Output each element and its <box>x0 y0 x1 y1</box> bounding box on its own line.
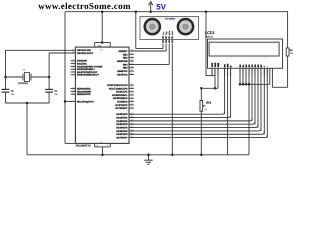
svg-text:PIC16F877A: PIC16F877A <box>76 144 91 147</box>
pin 6 RA4/T0CKI/C1OUT <box>71 71 76 73</box>
wire RD5 bus <box>129 129 261 131</box>
svg-text:RA3/AN3/VREF+: RA3/AN3/VREF+ <box>77 68 96 71</box>
wire OSC2 to crystal <box>49 52 75 54</box>
svg-text:RV1: RV1 <box>206 101 211 104</box>
svg-text:RD4/PSP4: RD4/PSP4 <box>116 126 128 129</box>
wire RS riser <box>224 68 226 114</box>
pin 12 VSS <box>94 143 96 147</box>
svg-text:HC-SR04: HC-SR04 <box>165 18 176 21</box>
svg-text:RB7/PGD: RB7/PGD <box>117 73 128 76</box>
sensor pin GND <box>172 40 174 44</box>
svg-text:RD1/PSP1: RD1/PSP1 <box>116 116 128 119</box>
svg-text:RC2/CCP1: RC2/CCP1 <box>116 91 128 94</box>
wire RD3 bus <box>129 122 255 124</box>
svg-text:5: 5 <box>73 67 74 70</box>
wire RD4 bus <box>129 125 258 127</box>
svg-text:12: 12 <box>96 144 98 147</box>
wire OSC1 to crystal <box>6 49 76 51</box>
svg-text:RC1/T1OSI/CCP2: RC1/T1OSI/CCP2 <box>109 87 128 90</box>
pin 35 RB2 <box>129 57 134 59</box>
svg-text:RD5/PSP5: RD5/PSP5 <box>116 130 128 133</box>
wire VDD riser <box>214 68 216 88</box>
wire VDD feed <box>101 12 103 43</box>
svg-text:10: 10 <box>72 92 74 95</box>
svg-text:1: 1 <box>73 99 74 102</box>
wire D3 ground drop <box>248 68 250 155</box>
wire 5V drop / MCLR tie (x=65) <box>64 12 66 144</box>
svg-text:Gnd: Gnd <box>171 31 174 35</box>
pin 17 RC2/CCP1 <box>129 91 134 93</box>
svg-text:RC6/TX/CK: RC6/TX/CK <box>115 104 127 107</box>
svg-text:RA0/AN0: RA0/AN0 <box>77 60 88 63</box>
svg-text:Vdd: Vdd <box>99 49 102 52</box>
wire VEE riser <box>217 68 219 88</box>
pin 27 RD4/PSP4 <box>129 127 134 129</box>
wire VSS bar <box>95 146 111 148</box>
svg-text:RD0/PSP0: RD0/PSP0 <box>116 113 128 116</box>
wire osc1 drop <box>5 50 7 89</box>
svg-text:Vss: Vss <box>99 141 102 144</box>
pin 9 RE1/AN6/WR <box>71 90 76 92</box>
pin 22 RD3/PSP3 <box>129 123 134 125</box>
pin 36 RB3/PGM <box>129 60 134 62</box>
wire 5V to VDD <box>205 12 207 76</box>
wire D0 to line <box>239 68 241 84</box>
node crystal-right junction <box>48 76 51 79</box>
ground <box>148 155 150 160</box>
sensor pin VCC <box>162 40 164 44</box>
wire D4 riser <box>251 68 253 121</box>
pin 23 RC4/SDI/SDA <box>129 97 134 99</box>
wire VSS stub <box>211 68 213 75</box>
node crystal-left junction <box>4 76 7 79</box>
svg-text:3: 3 <box>73 61 74 64</box>
svg-text:16: 16 <box>131 86 133 89</box>
wire RV1 ground <box>200 111 202 155</box>
svg-text:17: 17 <box>131 89 133 92</box>
transducer right <box>178 19 193 34</box>
svg-text:RD6/PSP6: RD6/PSP6 <box>116 133 128 136</box>
pin 30 RD7/PSP7 <box>129 137 134 139</box>
svg-text:U1: U1 <box>98 45 102 48</box>
wire P16 riser <box>266 68 268 137</box>
svg-text:7: 7 <box>73 72 74 75</box>
svg-text:2: 2 <box>73 58 74 61</box>
node cap gnd junction <box>26 102 29 105</box>
capacitor C2 <box>2 88 10 90</box>
pin 26 RC7/RX/DT <box>129 107 134 109</box>
svg-text:15: 15 <box>131 83 133 86</box>
pin 34 RB1 <box>129 53 134 55</box>
potentiometer RV1 <box>200 88 202 100</box>
wire RV1 link <box>201 87 218 89</box>
wire sensor VCC feed <box>135 10 138 13</box>
pin 33 RB0/INT <box>129 50 134 52</box>
pin 4 RA2/AN2/VREF-/CVREF <box>71 65 76 67</box>
pin 38 RB5 <box>129 67 134 69</box>
svg-text:RB3/PGM: RB3/PGM <box>117 60 128 63</box>
wire E riser <box>230 68 232 117</box>
svg-text:www.electroSome.com: www.electroSome.com <box>38 1 131 11</box>
svg-text:RD7/PSP7: RD7/PSP7 <box>116 136 128 139</box>
svg-text:LCD1: LCD1 <box>205 31 215 35</box>
wire PX1 riser <box>269 68 271 84</box>
svg-text:18: 18 <box>131 93 133 96</box>
pin 8 RE0/AN5/RD <box>71 88 76 90</box>
wire crystal left <box>6 76 24 78</box>
svg-text:MCLR/Vpp/THV: MCLR/Vpp/THV <box>77 100 94 103</box>
svg-text:35: 35 <box>131 55 133 58</box>
crystal X1 <box>25 73 30 82</box>
wire PX2 riser <box>271 68 273 87</box>
svg-text:RE0/AN5/RD: RE0/AN5/RD <box>77 88 91 91</box>
wire RD2 bus <box>129 119 252 121</box>
svg-text:VEE: VEE <box>217 62 220 67</box>
wire D-line <box>240 83 270 85</box>
pin 21 RD2/PSP2 <box>129 120 134 122</box>
wire D5 riser <box>254 68 256 124</box>
svg-text:CRYSTAL: CRYSTAL <box>18 82 29 85</box>
svg-text:RB0/INT: RB0/INT <box>119 50 129 53</box>
wire RW ground drop <box>227 68 229 155</box>
wire sensor GND drop <box>171 44 173 155</box>
svg-text:RB1: RB1 <box>123 53 128 56</box>
wire D7 riser <box>260 68 262 131</box>
svg-text:38: 38 <box>131 65 133 68</box>
pin 24 RC5/SDO <box>129 101 134 103</box>
svg-text:RA2/AN2/VREF-/CVREF: RA2/AN2/VREF-/CVREF <box>77 65 103 68</box>
svg-text:39: 39 <box>131 69 133 72</box>
pin 37 RB4 <box>129 63 134 65</box>
pin 5 RA3/AN3/VREF+ <box>71 68 76 70</box>
svg-text:34: 34 <box>131 52 133 55</box>
pin 25 RC6/TX/CK <box>129 104 134 106</box>
resistor R1 <box>287 12 289 48</box>
wire crystal right <box>31 76 49 78</box>
pin 19 RD0/PSP0 <box>129 113 134 115</box>
svg-text:OSC1/CLKIN: OSC1/CLKIN <box>77 49 91 52</box>
svg-text:1k: 1k <box>205 108 207 111</box>
pin 15 RC0/T1OSO/T1CKI <box>129 84 134 86</box>
ultrasonic sensor HC-SR04 <box>140 17 199 40</box>
wire D1 to line <box>242 68 244 84</box>
pin 16 RC1/T1OSI/CCP2 <box>129 87 134 89</box>
svg-text:9: 9 <box>73 89 74 92</box>
svg-text:VSS: VSS <box>211 62 214 67</box>
svg-text:OSC2/CLKOUT: OSC2/CLKOUT <box>77 52 94 55</box>
wire ECHO to RB4 <box>168 44 170 65</box>
wire osc2 drop <box>48 53 50 89</box>
wire ground rail <box>27 154 249 156</box>
svg-text:Vcc: Vcc <box>162 32 165 35</box>
power 5V symbol <box>150 3 152 12</box>
svg-text:Trig: Trig <box>165 32 168 35</box>
svg-text:RC4/SDI/SDA: RC4/SDI/SDA <box>113 97 128 100</box>
svg-text:RA4/T0CKI/C1OUT: RA4/T0CKI/C1OUT <box>77 71 98 74</box>
pin 7 RA5/AN4/SS/C2OUT <box>71 74 76 76</box>
sensor pin ECHO <box>168 40 170 44</box>
wire cap ground link <box>6 102 50 104</box>
svg-text:RA1/AN1: RA1/AN1 <box>77 63 88 66</box>
pin 28 RD5/PSP5 <box>129 130 134 132</box>
wire 5V rail <box>65 11 288 13</box>
svg-text:RC7/RX/DT: RC7/RX/DT <box>115 107 128 110</box>
pin 40 RB7/PGD <box>129 73 134 75</box>
svg-text:RA5/AN4/SS/C2OUT: RA5/AN4/SS/C2OUT <box>77 74 100 77</box>
svg-text:RB6/PGC: RB6/PGC <box>117 70 128 73</box>
wire R1 to LCD <box>272 86 287 88</box>
wire RD7 bus <box>129 135 267 137</box>
svg-text:4: 4 <box>73 64 74 67</box>
microcontroller U1 <box>75 47 129 143</box>
svg-text:24: 24 <box>131 99 133 102</box>
svg-text:25: 25 <box>131 103 133 106</box>
svg-text:RB2: RB2 <box>123 57 128 60</box>
svg-text:RE2/AN7/CS: RE2/AN7/CS <box>77 93 91 96</box>
svg-text:RC0/T1OSO/T1CKI: RC0/T1OSO/T1CKI <box>107 84 128 87</box>
wire D2 to line <box>245 68 247 84</box>
wire RD1 bus <box>129 115 231 117</box>
svg-text:RB5: RB5 <box>123 67 128 70</box>
svg-text:40: 40 <box>131 72 133 75</box>
pin 39 RB6/PGC <box>129 70 134 72</box>
svg-text:23: 23 <box>131 96 133 99</box>
wire gnd drop x=27 <box>26 103 28 155</box>
svg-text:8: 8 <box>73 86 74 89</box>
svg-text:5V: 5V <box>156 2 166 11</box>
sensor pin TRIG <box>165 40 167 44</box>
svg-text:VDD: VDD <box>214 62 217 67</box>
svg-text:RC3/SCK/SCL: RC3/SCK/SCL <box>112 94 128 97</box>
svg-text:6: 6 <box>73 70 74 73</box>
svg-text:36: 36 <box>131 59 133 62</box>
svg-text:10k: 10k <box>290 52 293 55</box>
capacitor C1 <box>45 88 53 90</box>
wire P15 riser <box>263 68 265 134</box>
pin 3 RA1/AN1 <box>71 63 76 65</box>
pin 29 RD6/PSP6 <box>129 133 134 135</box>
transducer left <box>145 19 160 34</box>
pin 2 RA0/AN0 <box>71 60 76 62</box>
svg-text:RD3/PSP3: RD3/PSP3 <box>116 123 128 126</box>
pin 10 RE2/AN7/CS <box>71 93 76 95</box>
pin 31 VSS <box>109 143 111 147</box>
pin 18 RC3/SCK/SCL <box>129 94 134 96</box>
svg-text:26: 26 <box>131 106 133 109</box>
svg-text:RB4: RB4 <box>123 63 128 66</box>
svg-text:RC5/SDO: RC5/SDO <box>117 101 127 104</box>
wire D6 riser <box>257 68 259 127</box>
pin 20 RD1/PSP1 <box>129 117 134 119</box>
wire RD6 bus <box>129 132 264 134</box>
svg-text:RD2/PSP2: RD2/PSP2 <box>116 120 128 123</box>
LCD display window <box>209 42 279 56</box>
svg-text:31: 31 <box>106 144 108 147</box>
wire TRIG to RB0 <box>165 44 167 51</box>
svg-text:RE1/AN6/WR: RE1/AN6/WR <box>77 90 92 93</box>
svg-text:RS: RS <box>224 64 227 68</box>
wire RD0 bus <box>129 112 225 114</box>
